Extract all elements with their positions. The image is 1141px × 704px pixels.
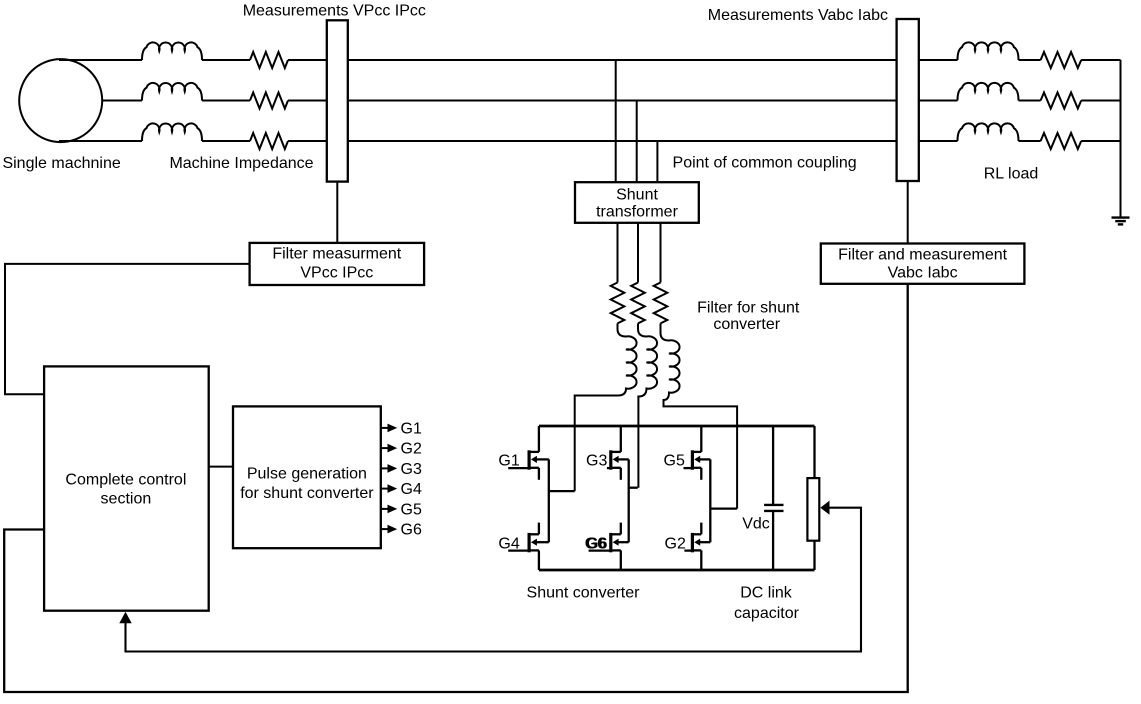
svg-text:DC link: DC link	[740, 585, 793, 602]
svg-text:Measurements Vabc Iabc: Measurements Vabc Iabc	[708, 7, 888, 24]
svg-text:Filter measurment: Filter measurment	[272, 246, 401, 263]
svg-text:Pulse generation: Pulse generation	[247, 465, 367, 482]
svg-text:Filter for shunt: Filter for shunt	[697, 300, 800, 317]
svg-text:section: section	[101, 490, 152, 507]
svg-text:for shunt converter: for shunt converter	[240, 485, 374, 502]
svg-text:G3: G3	[586, 453, 607, 470]
svg-text:G2: G2	[665, 535, 686, 552]
svg-text:converter: converter	[713, 316, 780, 333]
svg-text:G1: G1	[401, 420, 422, 437]
svg-text:G4: G4	[498, 535, 519, 552]
svg-text:RL load: RL load	[984, 166, 1039, 183]
svg-text:G1: G1	[498, 453, 519, 470]
svg-text:Point of common coupling: Point of common coupling	[673, 154, 857, 171]
svg-text:Machine Impedance: Machine Impedance	[169, 155, 313, 172]
svg-text:capacitor: capacitor	[734, 605, 800, 622]
svg-text:G3: G3	[401, 461, 422, 478]
svg-text:Filter and measurement: Filter and measurement	[838, 247, 1008, 264]
svg-text:G6: G6	[586, 535, 607, 552]
svg-text:G4: G4	[401, 481, 422, 498]
svg-text:Shunt: Shunt	[616, 187, 658, 204]
svg-text:G6: G6	[401, 522, 422, 539]
svg-text:Shunt converter: Shunt converter	[527, 585, 641, 602]
svg-text:G5: G5	[401, 501, 422, 518]
svg-text:Measurements VPcc IPcc: Measurements VPcc IPcc	[243, 3, 426, 20]
svg-text:VPcc IPcc: VPcc IPcc	[300, 265, 373, 282]
svg-text:Single machnine: Single machnine	[2, 155, 120, 172]
svg-text:Vdc: Vdc	[742, 516, 770, 533]
svg-text:G5: G5	[664, 453, 685, 470]
svg-text:G2: G2	[401, 441, 422, 458]
svg-text:Vabc Iabc: Vabc Iabc	[888, 264, 958, 281]
svg-text:transformer: transformer	[596, 204, 678, 221]
svg-text:Complete control: Complete control	[65, 472, 186, 489]
